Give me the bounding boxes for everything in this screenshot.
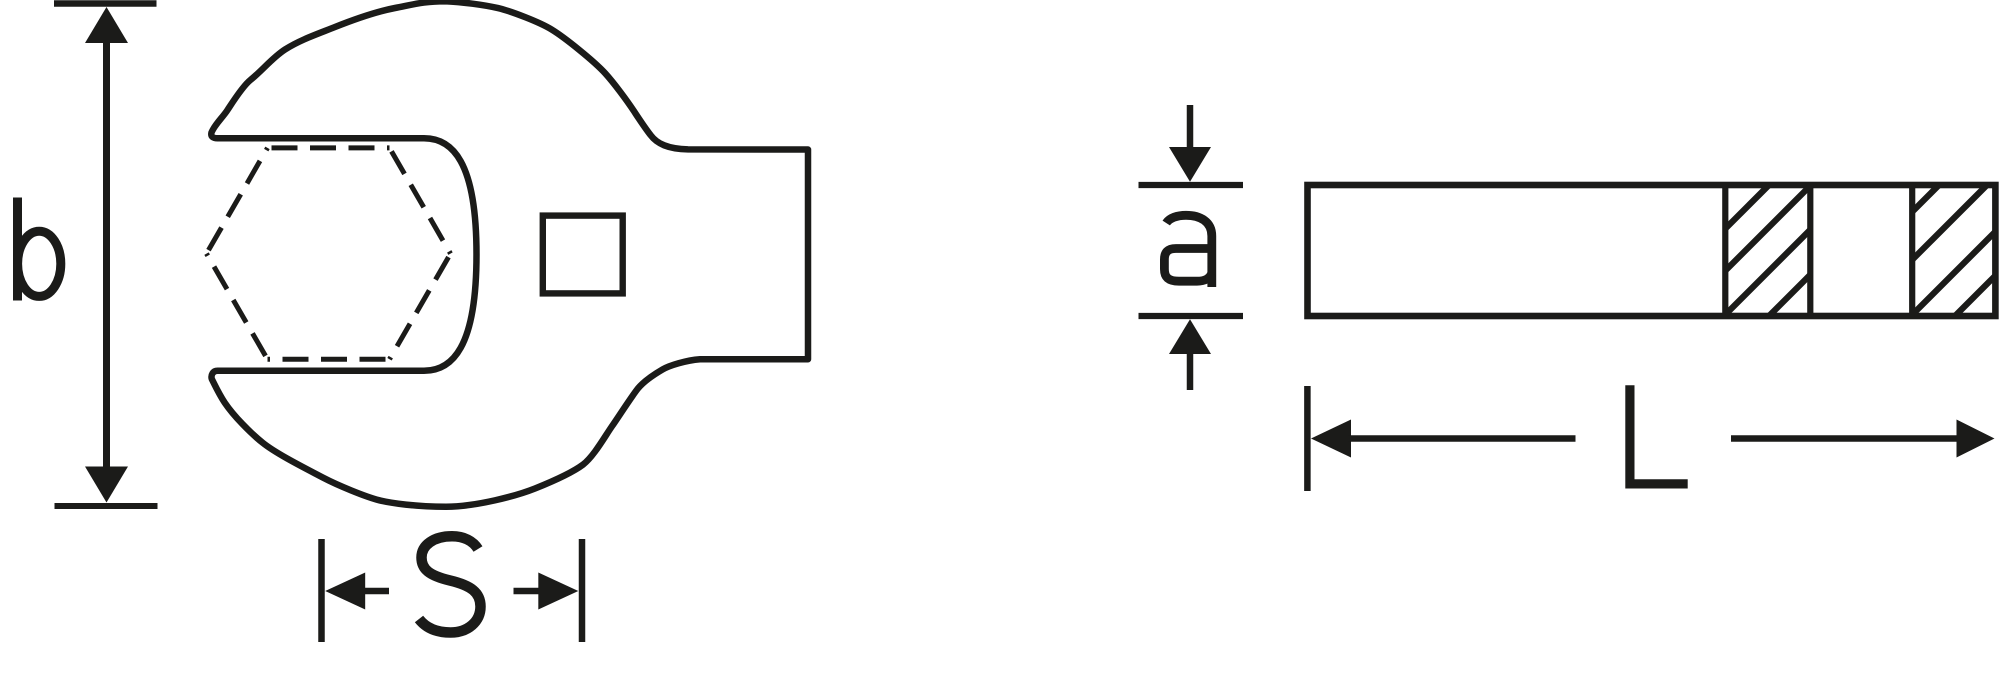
label L: [1630, 385, 1688, 484]
hatch section 1 line 2: [1725, 186, 1810, 271]
hexagon dashed edge top-left: [207, 148, 268, 254]
dimension b top arrowhead: [85, 7, 128, 43]
dimension L left arrow shaft: [1348, 435, 1576, 442]
dimension a upper arrow shaft: [1187, 105, 1194, 150]
hatch section 1 line 1: [1725, 185, 1769, 229]
dimension L left arrowhead: [1311, 420, 1351, 458]
dimension S right arrowhead: [538, 573, 578, 610]
hatch section 2 line 4: [1955, 276, 1995, 316]
square drive hole: [543, 216, 623, 294]
dimension b top tick: [54, 0, 157, 7]
dimension b vertical line: [103, 36, 110, 472]
label a crossbar and bowl: [1164, 249, 1211, 282]
dimension L right arrowhead: [1957, 420, 1995, 458]
dimension S left arrowhead: [325, 573, 365, 610]
hexagon dashed edge bottom-right: [390, 254, 451, 360]
dimension S right arrow shaft: [514, 588, 541, 595]
wrench outline: [211, 1, 808, 507]
side view divider 2: [1807, 185, 1813, 316]
hatch section 2 line 1: [1912, 185, 1939, 212]
label a top arc and stem: [1166, 215, 1212, 287]
dimension a lower arrowhead: [1169, 319, 1211, 354]
dimension a lower arrow shaft: [1187, 350, 1194, 390]
dimension b bottom tick: [55, 503, 158, 509]
hexagon dashed edge top: [268, 145, 390, 150]
dimension S right tick: [579, 539, 586, 642]
hatch section 1 line 4: [1769, 275, 1810, 316]
dimension S left tick: [318, 539, 325, 642]
side view bar outline: [1308, 185, 1996, 316]
hatch section 1 line 3: [1725, 230, 1810, 315]
label S: [419, 536, 481, 632]
dimension a upper arrowhead: [1169, 147, 1211, 182]
dimension S left arrow shaft: [363, 588, 389, 595]
side view divider 1: [1722, 185, 1728, 316]
hexagon dashed edge bottom-left: [207, 254, 268, 360]
label b stem: [13, 198, 22, 301]
dimension a top tick: [1139, 182, 1244, 188]
dimension L left tick: [1304, 386, 1311, 491]
hexagon dashed edge bottom: [268, 357, 390, 362]
dimension L right arrow shaft: [1731, 435, 1958, 442]
dimension a bottom tick: [1139, 313, 1244, 319]
dimension b bottom arrowhead: [85, 467, 128, 503]
hexagon dashed edge top-right: [390, 148, 451, 254]
hatch section 2 line 3: [1912, 232, 1995, 315]
hatch section 2 line 2: [1912, 185, 1987, 260]
label b bowl: [18, 231, 61, 296]
side view divider 3: [1909, 185, 1915, 316]
